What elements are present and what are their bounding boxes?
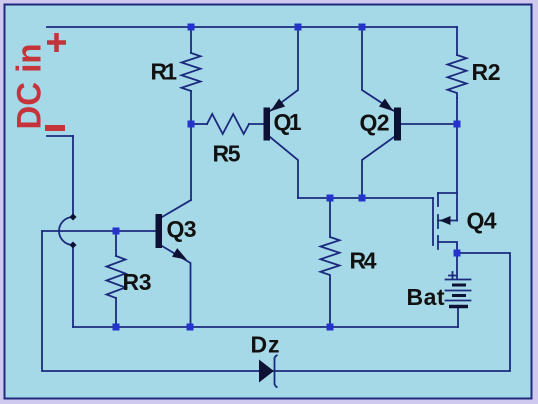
svg-text:R4: R4 (350, 248, 377, 274)
svg-text:Q4: Q4 (467, 208, 497, 234)
svg-text:R2: R2 (472, 59, 501, 85)
svg-text:Q1: Q1 (274, 109, 302, 135)
svg-text:R1: R1 (151, 59, 178, 85)
svg-text:Q3: Q3 (167, 216, 197, 242)
svg-text:R3: R3 (123, 269, 152, 295)
svg-text:Bat: Bat (407, 284, 445, 310)
svg-text:Q2: Q2 (360, 110, 390, 136)
svg-text:R5: R5 (213, 141, 241, 167)
svg-text:DC in: DC in (11, 44, 49, 130)
svg-text:Dz: Dz (251, 332, 280, 358)
